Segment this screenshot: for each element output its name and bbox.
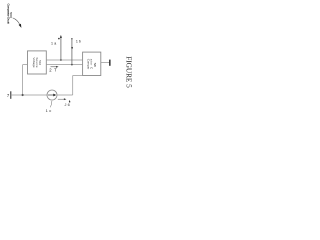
node label 2T with arrow (below wires, right of left box) — [49, 66, 58, 73]
node label 156 with up leader (below wire corner) — [65, 100, 71, 107]
node label 116 for wire A — [51, 38, 60, 46]
wire: bottom input rail — [11, 94, 47, 96]
svg-text:1b: 1b — [76, 40, 81, 44]
current direction arrow under wire — [58, 98, 67, 100]
wire: riser up to comparator bottom — [72, 76, 74, 96]
junction dot at input rail — [22, 94, 24, 96]
wire: bottom wire between boxes (node B) — [46, 64, 82, 66]
node label 150 with curved leader (below current source) — [46, 101, 52, 113]
leader arrow from title label — [13, 18, 22, 28]
current source I1 (circle with right arrow) — [47, 90, 57, 100]
svg-text:1c: 1c — [46, 108, 52, 113]
wire: vertical supply wire A with up arrow — [60, 35, 62, 60]
input terminal bar — [10, 91, 11, 99]
wire: left stub from left box — [23, 64, 28, 66]
wire: from current source to riser — [57, 94, 73, 96]
svg-text:ator C: ator C — [89, 59, 93, 70]
wire: vertical supply wire B — [71, 38, 72, 65]
wire: left vertical down to input rail — [22, 65, 24, 95]
svg-text:510: 510 — [38, 60, 42, 65]
svg-text:1a: 1a — [51, 41, 56, 45]
svg-text:FIGURE 5: FIGURE 5 — [124, 56, 133, 88]
junction dot B — [71, 64, 73, 66]
wire: stub to comparator bottom-left corner — [73, 75, 83, 77]
svg-text:J6: J6 — [65, 103, 70, 107]
block U1: voltage source circuit (left box) — [28, 51, 47, 74]
wire: top wire between boxes (node A) — [46, 59, 82, 61]
svg-text:500: 500 — [9, 12, 13, 18]
block U2: comparator (right box) — [83, 52, 101, 75]
svg-text:2T: 2T — [49, 67, 57, 72]
node label: comparator circuit 500 (rotated title, top-left) — [6, 4, 13, 24]
wire: comparator output — [101, 62, 110, 64]
junction dot A — [60, 59, 62, 61]
svg-text:520: 520 — [93, 63, 97, 68]
node label 118 for wire B — [71, 40, 81, 49]
output terminal bar — [109, 60, 110, 66]
